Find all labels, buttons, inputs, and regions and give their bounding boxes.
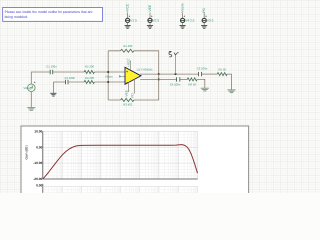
node probe junction xyxy=(174,73,176,75)
plot axes xyxy=(43,131,198,179)
resistor R4 xyxy=(84,77,94,84)
wire xyxy=(94,71,125,73)
wire xyxy=(182,23,184,26)
svg-text:Please see inside the model ne: Please see inside the model netlist for … xyxy=(5,10,93,14)
voltage source V2 xyxy=(148,16,159,23)
ground xyxy=(201,88,209,91)
ground xyxy=(180,26,186,29)
svg-text:V3 5: V3 5 xyxy=(207,19,214,23)
wire xyxy=(182,13,184,18)
svg-text:R3 402: R3 402 xyxy=(123,103,132,106)
wire xyxy=(227,74,231,89)
voltage generator VG1 xyxy=(23,82,35,92)
svg-text:-20.00: -20.00 xyxy=(33,178,42,182)
ground xyxy=(147,26,153,29)
resistor R2 xyxy=(84,65,94,73)
wire top feedback xyxy=(108,51,159,74)
svg-text:R4 200: R4 200 xyxy=(85,77,94,80)
wire xyxy=(203,23,205,26)
wire xyxy=(149,13,151,18)
svg-text:C1 100n: C1 100n xyxy=(46,65,57,68)
wire xyxy=(53,71,84,73)
pin VEE stub xyxy=(128,82,130,92)
node OUT- junction xyxy=(158,78,160,80)
svg-text:U1 THS4541: U1 THS4541 xyxy=(137,68,153,71)
wire xyxy=(94,81,125,83)
wire xyxy=(203,13,205,18)
svg-text:Vsicm: Vsicm xyxy=(105,75,113,78)
wire xyxy=(149,23,151,26)
wire OUT- xyxy=(140,78,176,80)
ground xyxy=(27,108,35,111)
svg-text:PD: PD xyxy=(131,93,135,97)
node OUT+ junction xyxy=(158,73,160,75)
svg-text:V4 2.5: V4 2.5 xyxy=(185,19,194,23)
wire xyxy=(31,72,50,84)
svg-text:V1 5: V1 5 xyxy=(130,19,137,23)
wire xyxy=(127,23,129,26)
svg-text:PD: PD xyxy=(202,8,206,13)
wire xyxy=(30,91,32,107)
wire xyxy=(127,13,129,18)
svg-text:Vsicm: Vsicm xyxy=(181,4,185,13)
svg-text:being modeled.: being modeled. xyxy=(5,15,28,19)
svg-text:R2 200: R2 200 xyxy=(85,65,94,68)
voltage source V4 xyxy=(181,16,195,23)
voltage source V1 xyxy=(126,16,137,23)
capacitor C2 xyxy=(65,77,76,84)
ground xyxy=(125,26,131,29)
wire xyxy=(68,81,84,83)
wire xyxy=(202,73,218,75)
capacitor C4 xyxy=(170,77,181,86)
svg-text:0.00: 0.00 xyxy=(36,184,42,188)
resistor R3 xyxy=(121,99,134,107)
capacitor C1 xyxy=(46,65,57,74)
capacitor C3 xyxy=(197,67,208,76)
gain curve xyxy=(43,145,198,179)
svg-text:C2 100n: C2 100n xyxy=(65,77,76,80)
ground xyxy=(52,82,54,93)
phase pane top (cut off) xyxy=(36,184,198,193)
svg-text:10.00: 10.00 xyxy=(34,130,42,134)
svg-text:-VEE: -VEE xyxy=(148,5,152,13)
pin VCC+ stub xyxy=(129,60,131,70)
svg-text:R1 400: R1 400 xyxy=(123,45,132,48)
wire xyxy=(180,78,187,80)
resistor R6 xyxy=(187,78,197,87)
svg-text:+VCC: +VCC xyxy=(126,4,130,13)
svg-text:Gain (dB): Gain (dB) xyxy=(25,145,29,159)
axis labels xyxy=(25,130,43,181)
svg-text:-VEE: -VEE xyxy=(125,90,129,98)
wire xyxy=(197,79,205,87)
svg-text:0.00: 0.00 xyxy=(36,146,42,150)
ground xyxy=(201,26,207,29)
wire left feedback column xyxy=(107,51,109,100)
net label Vsicm (VOCM) xyxy=(105,75,125,78)
svg-text:+VCC: +VCC xyxy=(127,58,131,67)
wire xyxy=(53,81,65,83)
svg-text:-10.00: -10.00 xyxy=(33,162,42,166)
note: model info text box xyxy=(3,8,103,22)
plot grid xyxy=(43,131,198,179)
svg-text:R5 50: R5 50 xyxy=(218,68,226,71)
wire bottom feedback xyxy=(108,79,159,100)
plot window frame xyxy=(21,126,249,196)
svg-text:C3 100n: C3 100n xyxy=(197,67,208,70)
svg-text:C4 100n: C4 100n xyxy=(170,83,181,86)
ground xyxy=(227,90,235,93)
resistor R5 xyxy=(217,68,227,75)
svg-text:V2 5: V2 5 xyxy=(153,19,160,23)
svg-text:VG1: VG1 xyxy=(23,87,29,90)
svg-text:R6 50: R6 50 xyxy=(188,83,196,86)
wire OUT+ xyxy=(140,73,198,75)
resistor R1 xyxy=(121,45,134,53)
wire right feedback column xyxy=(158,74,160,79)
pin PD stub xyxy=(134,79,136,94)
node IN+ junction xyxy=(107,71,109,73)
op-amp U1 THS4541 xyxy=(125,67,153,84)
probe VF1 xyxy=(169,51,179,74)
voltage source V3 xyxy=(202,16,213,23)
node IN- junction xyxy=(107,81,109,83)
